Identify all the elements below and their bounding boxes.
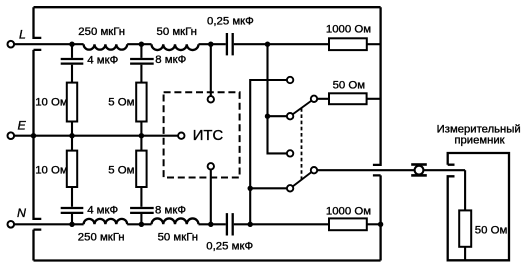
svg-text:8 мкФ: 8 мкФ <box>155 205 186 217</box>
wire 5 Ом bottom to 8 мкФ bottom <box>140 187 142 207</box>
node E2 junction <box>139 133 144 138</box>
wire pole A to 50 Ом <box>317 98 329 100</box>
svg-text:10 Ом: 10 Ом <box>35 97 68 109</box>
shield enclosure top edge <box>34 6 381 8</box>
node L-bus junction <box>265 114 270 119</box>
wire L-line capacitor to resistor <box>234 43 329 45</box>
wire L line to ИТС top port <box>210 44 212 96</box>
capacitor 0,25 мкФ (L line, series) <box>227 33 233 55</box>
svg-text:приемник: приемник <box>454 134 504 146</box>
node N2 junction <box>139 222 144 227</box>
terminal E <box>8 132 15 139</box>
switch fixed contact 1 (N) <box>287 77 293 83</box>
ИТС left port <box>178 133 184 139</box>
node L4 junction <box>265 42 270 47</box>
wire 5 Ом top to E bus <box>140 122 142 136</box>
wire 50 Ом to shield wall <box>367 98 381 100</box>
ИТС bottom port <box>208 163 214 169</box>
switch fixed contact 4 (N) <box>287 185 293 191</box>
svg-text:0,25 мкФ: 0,25 мкФ <box>206 240 253 252</box>
node E-shield junction <box>31 133 36 138</box>
wire node2 to 8 мкФ top <box>140 44 142 58</box>
node L3 junction <box>208 42 213 47</box>
wire L bus branch to contact 2 <box>268 115 288 117</box>
node N-shield junction <box>378 222 383 227</box>
resistor 10 Ом (bottom) <box>67 151 77 187</box>
capacitor 0,25 мкФ (N line, series) <box>227 213 233 235</box>
switch fixed contact 2 (L) <box>287 113 293 119</box>
svg-text:5 Ом: 5 Ом <box>108 97 134 109</box>
capacitor 8 мкФ (bottom shunt) <box>130 208 154 213</box>
shield enclosure right wall (with feedthrough gap at output) <box>373 7 381 260</box>
wire 4 мкФ bottom to N line <box>71 214 73 224</box>
wire 1000 Ом bottom to shield wall <box>367 223 381 225</box>
node L2 junction <box>139 42 144 47</box>
wire 8 мкФ to 5 Ом top <box>140 65 142 83</box>
wire 1000 Ом top to shield wall <box>367 43 381 45</box>
node N3 junction <box>208 222 213 227</box>
resistor 1000 Ом (bottom) <box>329 218 367 230</box>
inductor 50 мкГн (N line) <box>152 218 199 224</box>
node N4 junction <box>248 222 253 227</box>
svg-text:10 Ом: 10 Ом <box>35 164 68 176</box>
wire 10 Ом bottom to 4 мкФ bottom <box>71 187 73 207</box>
terminal N <box>8 221 15 228</box>
wire L terminal to node 1 <box>14 43 83 45</box>
wire pole B to receiver <box>317 169 465 171</box>
switch arm pole B <box>293 172 311 186</box>
measuring receiver enclosure <box>448 153 509 260</box>
resistor 50 Ом (receiver input) <box>459 210 471 246</box>
wire receiver input down-lead <box>464 170 466 210</box>
svg-text:4 мкФ: 4 мкФ <box>87 54 118 66</box>
switch arm pole A <box>293 101 311 114</box>
svg-text:E: E <box>18 118 27 132</box>
resistor 1000 Ом (top) <box>329 38 367 50</box>
svg-text:ИТС: ИТС <box>193 128 224 144</box>
wire L selector bus <box>268 44 288 153</box>
wire N-line capacitor to resistor <box>234 223 329 225</box>
wire node1 to 4 мкФ top <box>71 44 73 58</box>
inductor 250 мкГн (N line) <box>84 219 128 224</box>
svg-text:50 Ом: 50 Ом <box>475 225 508 237</box>
node N-branch junction <box>248 186 253 191</box>
inductor 250 мкГн (L line) <box>84 44 128 49</box>
svg-text:5 Ом: 5 Ом <box>108 164 134 176</box>
wire N terminal to node 5 <box>14 223 83 225</box>
terminal L <box>8 41 15 48</box>
wire ИТС bottom port to N line <box>210 169 212 224</box>
switch fixed contact 3 (L) <box>287 150 293 156</box>
svg-text:8 мкФ: 8 мкФ <box>155 54 186 66</box>
wire between L-line inductors <box>127 43 151 45</box>
svg-text:1000 Ом: 1000 Ом <box>326 205 371 217</box>
shield enclosure bottom edge <box>34 259 381 261</box>
svg-text:1000 Ом: 1000 Ом <box>326 24 371 36</box>
wire N selector branch <box>250 80 287 224</box>
capacitor 4 мкФ (top shunt) <box>61 59 84 64</box>
wire 4 мкФ to 10 Ом top <box>71 65 73 83</box>
wire 10 Ом top to E bus <box>71 122 73 136</box>
svg-text:0,25 мкФ: 0,25 мкФ <box>207 16 254 28</box>
wire receiver resistor to enclosure bottom <box>464 247 466 260</box>
svg-text:4 мкФ: 4 мкФ <box>87 205 118 217</box>
wire E bus to 5 Ом bottom <box>140 136 142 151</box>
wire between N-line inductors <box>127 223 151 225</box>
coaxial connector <box>411 165 427 176</box>
shield enclosure left wall (with feedthrough gaps at L and N) <box>34 7 42 260</box>
resistor 5 Ом (top) <box>136 83 146 122</box>
ИТС top port <box>208 96 214 102</box>
wire 8 мкФ bottom to N line <box>140 214 142 224</box>
svg-text:N: N <box>17 206 26 220</box>
capacitor 4 мкФ (bottom shunt) <box>61 208 84 213</box>
svg-text:50 мкГн: 50 мкГн <box>158 232 198 244</box>
wire L-line inductor to capacitor <box>199 43 226 45</box>
switch gang link (dashed) <box>301 108 303 180</box>
wire N branch to contact 4 <box>250 187 287 189</box>
wire N-line inductor to capacitor <box>199 223 226 225</box>
node N1 junction <box>69 222 74 227</box>
wire E bus to 10 Ом bottom <box>71 136 73 151</box>
switch pole A contact <box>311 96 317 102</box>
resistor 50 Ом (termination) <box>329 93 367 104</box>
node L1 junction <box>69 42 74 47</box>
capacitor 8 мкФ (top shunt) <box>130 59 154 64</box>
svg-text:50 Ом: 50 Ом <box>333 79 366 91</box>
inductor 50 мкГн (L line) <box>152 44 199 50</box>
resistor 10 Ом (top) <box>67 83 77 122</box>
node E1 junction <box>69 133 74 138</box>
resistor 5 Ом (bottom) <box>136 151 146 187</box>
ИТС dashed box <box>164 92 240 177</box>
wire E terminal to ИТС port <box>14 135 178 137</box>
svg-text:50 мкГн: 50 мкГн <box>157 26 197 38</box>
svg-text:250 мкГн: 250 мкГн <box>78 232 125 244</box>
svg-text:250 мкГн: 250 мкГн <box>78 26 125 38</box>
switch pole B contact <box>311 167 317 173</box>
svg-text:L: L <box>19 27 26 41</box>
